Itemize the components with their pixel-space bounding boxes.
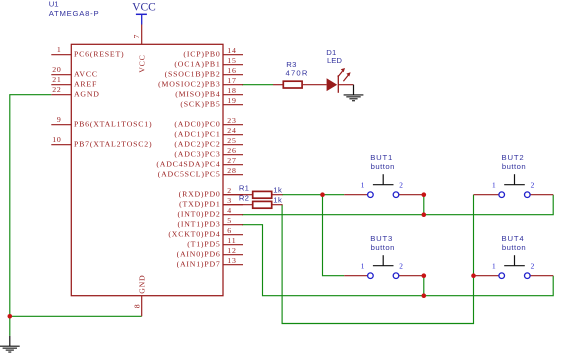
- svg-text:2: 2: [227, 186, 232, 195]
- svg-text:6: 6: [227, 226, 232, 235]
- svg-text:9: 9: [57, 115, 62, 124]
- svg-text:U1: U1: [49, 0, 59, 9]
- svg-text:1k: 1k: [273, 196, 282, 205]
- svg-text:ATMEGA8-P: ATMEGA8-P: [49, 9, 100, 18]
- svg-text:(AIN0)PD6: (AIN0)PD6: [177, 250, 221, 259]
- svg-text:R2: R2: [239, 193, 249, 202]
- svg-text:(AIN1)PD7: (AIN1)PD7: [177, 260, 221, 269]
- svg-text:23: 23: [227, 116, 236, 125]
- svg-text:LED: LED: [327, 56, 342, 65]
- svg-text:3: 3: [227, 196, 232, 205]
- svg-text:AGND: AGND: [74, 90, 100, 99]
- svg-text:(INT1)PD3: (INT1)PD3: [177, 220, 220, 229]
- svg-text:VCC: VCC: [138, 54, 147, 72]
- svg-text:1: 1: [361, 181, 365, 190]
- svg-text:13: 13: [227, 256, 236, 265]
- svg-text:(ICP)PB0: (ICP)PB0: [183, 50, 220, 59]
- svg-text:button: button: [371, 243, 395, 252]
- svg-text:(XCKT0)PD4: (XCKT0)PD4: [168, 230, 220, 239]
- svg-text:button: button: [502, 162, 526, 171]
- svg-text:25: 25: [227, 136, 236, 145]
- svg-text:22: 22: [52, 85, 61, 94]
- svg-text:14: 14: [227, 46, 236, 55]
- svg-text:(ADC2)PC2: (ADC2)PC2: [174, 140, 220, 149]
- svg-text:18: 18: [227, 86, 236, 95]
- svg-text:(TXD)PD1: (TXD)PD1: [179, 200, 220, 209]
- svg-text:(ADC1)PC1: (ADC1)PC1: [174, 130, 220, 139]
- svg-text:PC6(RESET): PC6(RESET): [74, 50, 124, 59]
- svg-text:1: 1: [361, 262, 365, 271]
- svg-text:(ADC3)PC3: (ADC3)PC3: [174, 150, 220, 159]
- svg-text:15: 15: [227, 56, 236, 65]
- svg-text:AREF: AREF: [74, 80, 97, 89]
- svg-text:11: 11: [227, 236, 236, 245]
- svg-text:PB7(XTAL2TOSC2): PB7(XTAL2TOSC2): [74, 140, 152, 149]
- svg-text:24: 24: [227, 126, 236, 135]
- svg-text:2: 2: [531, 262, 535, 271]
- svg-text:(OC1A)PB1: (OC1A)PB1: [174, 60, 220, 69]
- svg-text:(MOSIOC2)PB3: (MOSIOC2)PB3: [158, 80, 220, 89]
- svg-text:19: 19: [227, 96, 236, 105]
- svg-text:16: 16: [227, 66, 236, 75]
- svg-text:26: 26: [227, 146, 236, 155]
- svg-text:button: button: [502, 243, 526, 252]
- svg-text:(SCK)PB5: (SCK)PB5: [180, 100, 220, 109]
- svg-text:2: 2: [531, 181, 535, 190]
- svg-text:21: 21: [52, 75, 61, 84]
- svg-text:BUT4: BUT4: [502, 234, 525, 243]
- svg-text:4: 4: [227, 206, 232, 215]
- svg-text:20: 20: [52, 65, 61, 74]
- svg-text:button: button: [371, 162, 395, 171]
- svg-text:(T1)PD5: (T1)PD5: [187, 240, 220, 249]
- svg-text:1: 1: [492, 181, 496, 190]
- svg-text:28: 28: [227, 166, 236, 175]
- svg-text:17: 17: [227, 76, 236, 85]
- svg-text:(ADC5SCL)PC5: (ADC5SCL)PC5: [158, 170, 221, 179]
- svg-text:2: 2: [399, 262, 403, 271]
- svg-text:10: 10: [52, 135, 61, 144]
- svg-text:(ADC4SDA)PC4: (ADC4SDA)PC4: [156, 160, 220, 169]
- svg-text:(ADC0)PC0: (ADC0)PC0: [174, 120, 220, 129]
- svg-text:BUT2: BUT2: [502, 153, 525, 162]
- svg-text:1k: 1k: [273, 186, 282, 195]
- svg-text:(SSOC1B)PB2: (SSOC1B)PB2: [165, 70, 221, 79]
- svg-text:VCC: VCC: [132, 1, 155, 13]
- svg-text:(RXD)PD0: (RXD)PD0: [179, 190, 221, 199]
- svg-text:5: 5: [227, 216, 232, 225]
- svg-text:8: 8: [132, 304, 141, 308]
- svg-text:27: 27: [227, 156, 236, 165]
- svg-text:(INT0)PD2: (INT0)PD2: [177, 210, 220, 219]
- svg-text:GND: GND: [138, 275, 147, 294]
- svg-text:7: 7: [132, 35, 141, 39]
- svg-text:2: 2: [399, 181, 403, 190]
- svg-text:BUT3: BUT3: [370, 234, 393, 243]
- svg-text:R1: R1: [239, 183, 249, 192]
- svg-text:12: 12: [227, 246, 236, 255]
- svg-text:470R: 470R: [286, 69, 309, 78]
- svg-text:(MISO)PB4: (MISO)PB4: [175, 90, 220, 99]
- svg-text:1: 1: [57, 45, 62, 54]
- svg-text:BUT1: BUT1: [370, 153, 393, 162]
- svg-text:1: 1: [492, 262, 496, 271]
- svg-text:PB6(XTAL1TOSC1): PB6(XTAL1TOSC1): [74, 120, 152, 129]
- svg-text:AVCC: AVCC: [74, 70, 98, 79]
